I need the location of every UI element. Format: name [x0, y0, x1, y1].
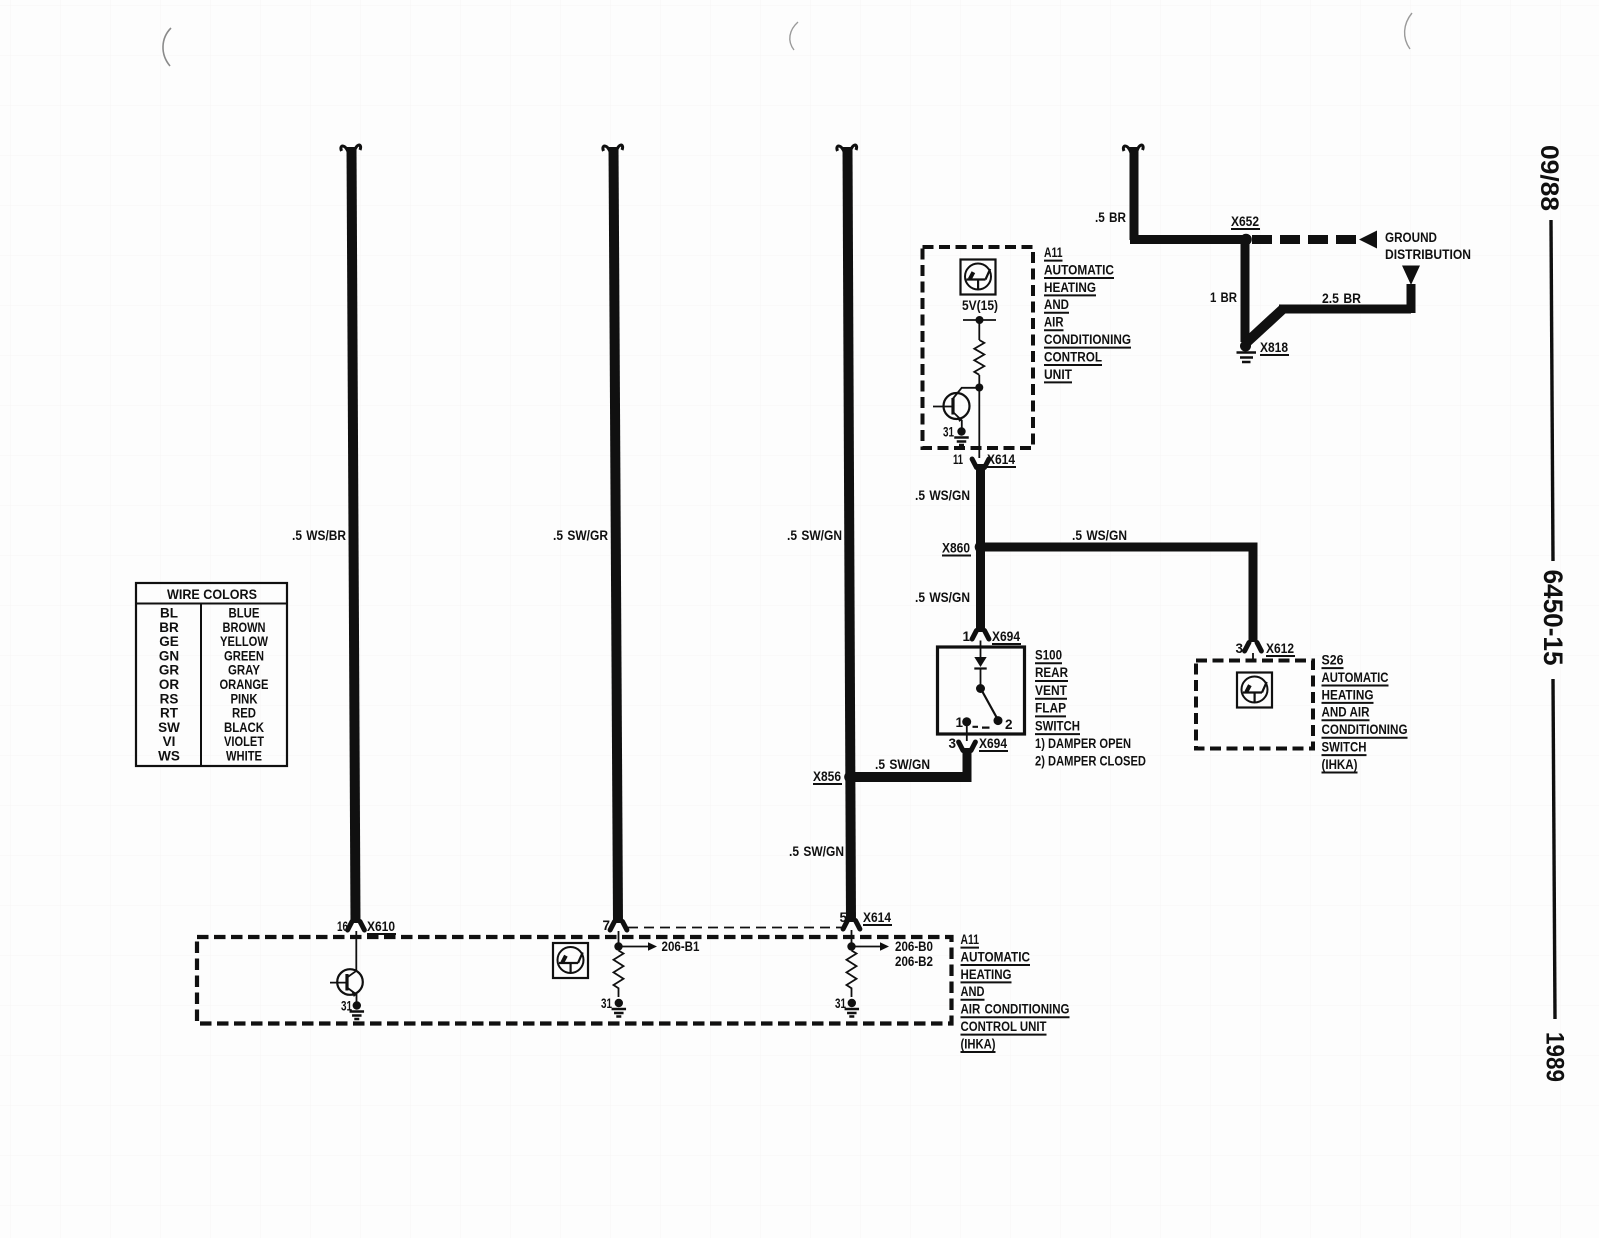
svg-text:6450-15: 6450-15 [1538, 570, 1568, 666]
wire W1 top curl [341, 145, 361, 157]
svg-text:CONTROL: CONTROL [1044, 349, 1102, 364]
corner registration mark right [1405, 13, 1412, 49]
ground 31 under pin7 resistor [615, 999, 623, 1007]
svg-text:GN: GN [159, 648, 179, 663]
svg-text:X694: X694 [992, 629, 1020, 644]
svg-text:WIRE COLORS: WIRE COLORS [167, 587, 257, 602]
node 3 connector fork X612 [1245, 643, 1262, 652]
svg-text:.5 WS/BR: .5 WS/BR [292, 528, 346, 543]
wire W2 .5 SW/GR vertical [614, 147, 619, 923]
wire .5 BR top curl [1123, 145, 1143, 157]
ground 31 under pin5 resistor [848, 999, 856, 1007]
svg-text:RED: RED [232, 706, 256, 721]
svg-text:X612: X612 [1266, 641, 1294, 656]
svg-text:.5 WS/GN: .5 WS/GN [915, 590, 970, 605]
svg-text:X652: X652 [1231, 214, 1259, 229]
svg-text:1 BR: 1 BR [1210, 290, 1237, 305]
wire 1 BR vertical [1241, 240, 1250, 343]
node 11 connector fork X614 [972, 459, 989, 468]
arrow 206-B1 [619, 946, 650, 948]
node X856 junction dot [844, 771, 856, 783]
wire .5 BR horizontal to X652 [1130, 235, 1250, 244]
svg-text:GROUND: GROUND [1385, 230, 1437, 245]
svg-text:3: 3 [1235, 641, 1243, 656]
node junction dot above transistor [975, 384, 983, 392]
wire colors table [136, 583, 287, 766]
A11 lower control unit dashed box [197, 937, 952, 1024]
svg-text:CONDITIONING: CONDITIONING [1322, 722, 1408, 737]
svg-text:.5 BR: .5 BR [1095, 210, 1126, 225]
svg-text:GRAY: GRAY [228, 663, 260, 678]
wire pin7 into box [618, 931, 620, 943]
svg-text:2.5 BR: 2.5 BR [1322, 291, 1361, 306]
svg-text:(IHKA): (IHKA) [1322, 757, 1358, 772]
svg-text:31: 31 [341, 999, 352, 1014]
svg-text:WS: WS [158, 749, 180, 764]
svg-text:A11: A11 [1044, 245, 1063, 260]
dashed alternate position mark [973, 726, 990, 729]
right margin rule upper [1551, 220, 1553, 561]
svg-text:ORANGE: ORANGE [220, 677, 269, 692]
node 16 connector fork X610 [348, 922, 365, 931]
svg-text:AIR CONDITIONING: AIR CONDITIONING [961, 1002, 1070, 1017]
svg-text:X856: X856 [813, 769, 841, 784]
wire down to X612 [1249, 543, 1258, 643]
svg-text:2) DAMPER CLOSED: 2) DAMPER CLOSED [1035, 754, 1146, 769]
svg-text:AIR: AIR [1044, 315, 1064, 330]
svg-text:5V(15): 5V(15) [962, 298, 998, 313]
wire 2.5 BR vertical up [1407, 284, 1416, 313]
svg-text:YELLOW: YELLOW [220, 634, 268, 649]
svg-text:OR: OR [159, 677, 180, 692]
svg-text:AUTOMATIC: AUTOMATIC [1322, 670, 1389, 685]
svg-text:206-B1: 206-B1 [662, 939, 700, 954]
svg-text:5: 5 [839, 910, 847, 925]
wire pin1 into box [980, 641, 982, 658]
resistor under pin5 [847, 951, 857, 998]
node 1 connector fork X694 [972, 631, 989, 640]
svg-text:(IHKA): (IHKA) [961, 1036, 996, 1051]
switch common dot [976, 684, 985, 693]
right margin rule lower [1553, 679, 1555, 1019]
svg-text:31: 31 [601, 996, 612, 1011]
svg-text:7: 7 [602, 918, 610, 933]
thin dashed boundary between pin7 and pin5 [628, 927, 843, 929]
svg-text:GE: GE [159, 634, 179, 649]
wire W2 top curl [603, 145, 623, 157]
wire corner up to X694 pin3 [963, 748, 972, 782]
svg-text:BLUE: BLUE [229, 606, 260, 621]
wire contact1 to pin3 [966, 722, 968, 741]
node X652 junction dot [1240, 234, 1252, 246]
wire dashed to ground distribution [1252, 235, 1358, 244]
svg-text:09/88: 09/88 [1535, 145, 1563, 211]
svg-text:HEATING: HEATING [961, 967, 1012, 982]
wire to resistor [978, 320, 980, 340]
svg-text:BL: BL [160, 606, 178, 621]
svg-text:GREEN: GREEN [224, 648, 264, 663]
svg-text:WHITE: WHITE [226, 749, 262, 764]
svg-text:AND: AND [1044, 297, 1069, 312]
transistor Q2 in lower A11 [337, 969, 363, 995]
svg-text:REAR: REAR [1035, 665, 1068, 680]
arrow down from ground distribution [1402, 266, 1420, 286]
svg-text:1989: 1989 [1541, 1032, 1569, 1082]
diode arrow in S100 [974, 657, 986, 667]
svg-text:206-B2: 206-B2 [895, 954, 933, 969]
node junction dot pin7 [614, 942, 622, 950]
ground X818 [1240, 341, 1251, 352]
svg-text:31: 31 [943, 425, 954, 440]
wire X860 down to X694 pin1 [976, 551, 985, 632]
wire X612 into S26 [1252, 653, 1254, 661]
wire .5 BR vertical top right [1130, 147, 1139, 240]
svg-text:RS: RS [160, 691, 179, 706]
svg-text:GR: GR [159, 663, 180, 678]
svg-text:CONTROL UNIT: CONTROL UNIT [961, 1019, 1048, 1034]
ground 31 under Q2 [353, 1001, 361, 1009]
wire 2.5 BR horizontal [1279, 305, 1411, 314]
arrow 206-B0 / 206-B2 [852, 946, 882, 948]
svg-text:BROWN: BROWN [223, 620, 266, 635]
node 7 connector fork X614 [610, 922, 627, 931]
resistor in upper A11 [974, 340, 984, 375]
svg-text:1: 1 [955, 715, 963, 730]
resistor under pin7 [614, 951, 624, 998]
ground 31 in upper A11 [957, 427, 965, 435]
node X860 junction dot [975, 541, 987, 553]
svg-text:FLAP: FLAP [1035, 701, 1066, 716]
contact 1 dot [962, 717, 971, 726]
flap symbol in upper A11 [961, 260, 996, 295]
flap symbol in S26 [1237, 673, 1272, 708]
svg-text:X614: X614 [987, 452, 1015, 467]
svg-text:31: 31 [835, 996, 846, 1011]
flap symbol in lower A11 [553, 943, 588, 978]
corner registration mark left [163, 28, 171, 66]
svg-text:RT: RT [160, 706, 179, 721]
svg-text:X818: X818 [1260, 340, 1288, 355]
svg-text:PINK: PINK [231, 691, 258, 706]
svg-text:X610: X610 [367, 919, 395, 934]
contact 2 dot [994, 716, 1003, 725]
wire W3 top curl [837, 145, 857, 157]
switch blade to contact 2 [982, 690, 998, 719]
wire from junction down to pin 11 [978, 391, 980, 458]
svg-text:.5 WS/GN: .5 WS/GN [915, 488, 970, 503]
svg-text:X860: X860 [942, 541, 970, 556]
wire pin16 into box [355, 931, 357, 971]
wire X860 branch horizontal .5 WS/GN [981, 543, 1258, 552]
svg-text:SWITCH: SWITCH [1035, 718, 1080, 733]
svg-text:VENT: VENT [1035, 683, 1068, 698]
svg-text:DISTRIBUTION: DISTRIBUTION [1385, 247, 1471, 262]
node 3 connector fork X694 [959, 742, 976, 751]
svg-text:SWITCH: SWITCH [1322, 740, 1367, 755]
svg-text:.5 SW/GN: .5 SW/GN [875, 757, 930, 772]
svg-text:.5 WS/GN: .5 WS/GN [1072, 528, 1127, 543]
svg-text:206-B0: 206-B0 [895, 939, 933, 954]
svg-text:AUTOMATIC: AUTOMATIC [961, 949, 1031, 964]
svg-text:HEATING: HEATING [1044, 280, 1096, 295]
S26 switch dashed box [1196, 661, 1313, 749]
corner registration mark center [790, 22, 798, 50]
svg-text:.5 SW/GN: .5 SW/GN [789, 844, 844, 859]
wire pin5 into box [851, 930, 853, 943]
svg-text:A11: A11 [961, 932, 980, 947]
svg-text:2: 2 [1005, 717, 1013, 732]
svg-text:16: 16 [337, 919, 348, 934]
svg-text:UNIT: UNIT [1044, 367, 1073, 382]
svg-text:.5 SW/GN: .5 SW/GN [787, 528, 842, 543]
svg-text:X614: X614 [863, 910, 891, 925]
wire W1 .5 WS/BR vertical [352, 147, 356, 923]
svg-text:1) DAMPER OPEN: 1) DAMPER OPEN [1035, 736, 1131, 751]
node junction dot pin5 [847, 942, 855, 950]
svg-text:X694: X694 [979, 736, 1007, 751]
transistor Q1 in upper A11 [944, 393, 970, 419]
svg-text:AUTOMATIC: AUTOMATIC [1044, 262, 1114, 277]
svg-text:AND: AND [961, 984, 985, 999]
svg-text:HEATING: HEATING [1322, 687, 1374, 702]
svg-text:1: 1 [962, 629, 970, 644]
svg-text:VI: VI [163, 734, 176, 749]
svg-text:.5 SW/GR: .5 SW/GR [553, 528, 608, 543]
svg-text:S26: S26 [1322, 653, 1344, 668]
S100 rear vent flap switch box [938, 647, 1025, 734]
svg-text:3: 3 [948, 736, 956, 751]
svg-text:AND AIR: AND AIR [1322, 705, 1370, 720]
arrow to ground distribution (points left) [1359, 231, 1377, 249]
node 5V(15) terminal [963, 319, 996, 321]
svg-text:SW: SW [158, 720, 180, 735]
wire W3 .5 SW/GN vertical [848, 147, 852, 922]
svg-text:CONDITIONING: CONDITIONING [1044, 332, 1131, 347]
node 5 connector fork X614 [843, 921, 860, 930]
svg-text:11: 11 [953, 452, 963, 467]
svg-text:BLACK: BLACK [224, 720, 264, 735]
A11 upper control unit dashed box [923, 247, 1034, 448]
svg-text:S100: S100 [1035, 648, 1062, 663]
svg-text:BR: BR [159, 620, 179, 635]
svg-text:VIOLET: VIOLET [224, 734, 265, 749]
wire X856 branch horizontal .5 SW/GN [850, 772, 967, 782]
wire pin11 to X860 [976, 464, 985, 551]
wire diagonal from X818 to 2.5 BR [1246, 308, 1284, 343]
